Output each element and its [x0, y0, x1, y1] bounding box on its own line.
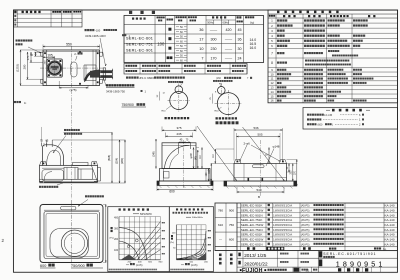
- top view screws: [44, 52, 46, 54]
- svg-text:KA-140: KA-140: [384, 213, 394, 217]
- title block mid cells: [276, 251, 278, 268]
- packing note: [126, 76, 128, 78]
- title block: [225, 251, 227, 273]
- svg-text:(1253): (1253): [16, 64, 20, 72]
- rear view dim 540: [236, 187, 238, 193]
- svg-text:36: 36: [199, 28, 203, 32]
- svg-text:375: 375: [176, 126, 181, 130]
- keyhole detail 2: [217, 93, 239, 115]
- svg-text:16.0: 16.0: [250, 46, 257, 50]
- svg-text:(kg): (kg): [250, 22, 254, 25]
- svg-text:8: 8: [271, 61, 273, 65]
- rear view top brackets: [234, 160, 241, 164]
- svg-text:――: ――: [225, 57, 233, 61]
- svg-text:(600: (600: [318, 123, 323, 126]
- svg-text:750/900: 750/900: [122, 103, 134, 107]
- svg-text:505: 505: [257, 132, 262, 136]
- title block FUJIOH logo: [240, 269, 242, 271]
- svg-text:1890955DA: 1890955DA: [273, 228, 293, 232]
- side view duct label: [64, 129, 66, 131]
- rear view dim 75: [268, 148, 270, 164]
- svg-text:(A5-P5): (A5-P5): [301, 243, 310, 246]
- svg-text:170: 170: [211, 57, 217, 61]
- graph 2 x axis title: [181, 264, 184, 266]
- svg-text:24: 24: [238, 57, 242, 61]
- svg-text:SERL-EC-901N: SERL-EC-901N: [241, 213, 263, 217]
- svg-text:1890959DA: 1890959DA: [273, 237, 293, 241]
- rear view bottom slab: [224, 181, 297, 186]
- svg-text:――: ――: [225, 47, 233, 51]
- rear view body: [234, 164, 287, 182]
- svg-text:(40): (40): [196, 156, 198, 160]
- hatch ticks under rear slab: [226, 186, 229, 189]
- svg-text:60Hz: 60Hz: [223, 21, 230, 25]
- svg-text:(A5-P5): (A5-P5): [301, 234, 310, 237]
- top view fan box: [47, 59, 62, 77]
- svg-text:1890958DA: 1890958DA: [273, 242, 293, 246]
- accessories box: [303, 108, 398, 130]
- side view inner boxes: [42, 170, 64, 181]
- graph 2 note: [170, 269, 172, 271]
- front view dim 600: [156, 186, 158, 191]
- dim (175): [59, 87, 88, 89]
- svg-text:7: 7: [201, 57, 203, 61]
- svg-text:750: 750: [229, 223, 234, 227]
- rear view inner details: [234, 177, 287, 179]
- bottom view top slot: [60, 206, 76, 210]
- svg-text:SERL-EC-901: SERL-EC-901: [126, 48, 153, 52]
- rear view centerline: [259, 140, 261, 196]
- svg-text:1890956DA: 1890956DA: [273, 223, 293, 227]
- bottom view inner panel: [44, 211, 100, 258]
- parts list table: [268, 10, 398, 103]
- svg-text:36: 36: [238, 38, 242, 42]
- keyhole detail 2 caption above: [213, 80, 215, 82]
- svg-text:30: 30: [238, 47, 242, 51]
- svg-text:KA-140: KA-140: [384, 204, 394, 208]
- svg-text:-100: -100: [95, 28, 101, 32]
- svg-text:170: 170: [26, 55, 30, 60]
- models table: [215, 203, 398, 251]
- svg-text:600: 600: [40, 264, 46, 268]
- graph 2 curves: [176, 231, 206, 259]
- svg-text:(A5-P5): (A5-P5): [301, 205, 310, 208]
- side view fan scroll: [42, 145, 63, 166]
- svg-text:550: 550: [66, 43, 72, 47]
- graph 2 dark wedge: [197, 253, 206, 260]
- svg-text:17: 17: [199, 38, 203, 42]
- svg-text:(m³/h): (m³/h): [191, 264, 198, 267]
- bottom view centerline: [70, 200, 72, 266]
- svg-text:(175): (175): [70, 88, 77, 92]
- dim 165: [43, 56, 55, 58]
- side view rear panel: [97, 166, 100, 168]
- svg-text:50Hz/60Hz: 50Hz/60Hz: [140, 213, 153, 216]
- svg-text:SERL-EC-901K: SERL-EC-901K: [241, 204, 264, 208]
- svg-text:SERL-EC-601K: SERL-EC-601K: [241, 233, 264, 237]
- svg-text:KA-140: KA-140: [384, 238, 394, 242]
- graph 2 curve end labels: [208, 230, 209, 231]
- label suction duct top-right: [85, 29, 87, 31]
- rear view handle hump: [252, 165, 264, 168]
- front view right dims: [196, 146, 199, 148]
- side view body: [39, 165, 97, 182]
- svg-text:SERL-EC-751W: SERL-EC-751W: [241, 223, 264, 227]
- graph 2 box: [169, 207, 213, 272]
- svg-text:600: 600: [169, 190, 175, 194]
- bottom view fan circles: [61, 230, 87, 256]
- svg-text:SERL-EC-601: SERL-EC-601: [126, 36, 153, 40]
- side view right vertical dims: [111, 132, 113, 183]
- top view duct stub right: [100, 70, 113, 77]
- power data strip: [124, 63, 247, 74]
- svg-text:2020/01/22: 2020/01/22: [244, 261, 268, 266]
- rear view dim 536: [233, 128, 235, 161]
- side view projection line: [40, 127, 42, 146]
- svg-text:SERL-EC-601W: SERL-EC-601W: [241, 237, 264, 241]
- svg-text:(280): (280): [120, 158, 124, 164]
- label hood mounting frame: [16, 39, 18, 41]
- svg-text:3439-1905-100V: 3439-1905-100V: [85, 34, 106, 38]
- svg-text:(m³/h): (m³/h): [136, 264, 143, 267]
- revision table: [14, 10, 83, 27]
- svg-text:(160: (160: [216, 77, 221, 80]
- svg-text:1890953DA: 1890953DA: [273, 208, 293, 212]
- leader diagonal D2: [242, 127, 284, 181]
- keyhole detail 2 caption: [216, 117, 218, 119]
- graph 1 title: [118, 208, 120, 210]
- svg-text:1890954DA: 1890954DA: [273, 218, 293, 222]
- svg-text:(Pa): (Pa): [170, 242, 174, 244]
- svg-text:300: 300: [211, 38, 217, 42]
- svg-text:KA-140: KA-140: [384, 208, 394, 212]
- svg-text:(A5-P5): (A5-P5): [301, 219, 310, 222]
- svg-text:SERL-EC-751N: SERL-EC-751N: [241, 228, 263, 232]
- svg-text:――: ――: [210, 28, 218, 32]
- svg-text:(A5-P5): (A5-P5): [301, 209, 310, 212]
- top view left tabs: [41, 52, 43, 56]
- svg-text:KA-140: KA-140: [384, 233, 394, 237]
- svg-text:3439-1905-750: 3439-1905-750: [106, 90, 125, 94]
- front view bottom slab: [157, 181, 213, 186]
- front view duct arc: [164, 145, 189, 168]
- svg-text:JIS C 9603: JIS C 9603: [139, 76, 154, 80]
- filter panel label: [39, 186, 41, 188]
- top view right bracket: [100, 52, 103, 56]
- svg-text:50Hz: 50Hz: [207, 21, 214, 25]
- graph 1 x axis title: [126, 264, 129, 266]
- side view rear diagonal: [91, 165, 97, 182]
- top view damper assembly: [84, 65, 96, 81]
- svg-text:12: 12: [270, 81, 274, 85]
- svg-text:SERL-EC-601N: SERL-EC-601N: [241, 242, 263, 246]
- svg-text:B: B: [258, 195, 260, 199]
- svg-text:(A5-P5): (A5-P5): [301, 214, 310, 217]
- svg-text:45: 45: [238, 28, 242, 32]
- front view cabinet small box: [163, 171, 169, 178]
- svg-text:KA-140: KA-140: [384, 228, 394, 232]
- graph 1 system lines: [131, 221, 161, 259]
- svg-text:SERL-EC-751K: SERL-EC-751K: [241, 218, 264, 222]
- title block stamp cells: [343, 267, 345, 272]
- svg-text:2013/ 1/25: 2013/ 1/25: [244, 253, 267, 258]
- svg-text:165: 165: [47, 53, 53, 57]
- keyhole detail 1: [170, 91, 188, 109]
- graph 2 title: [176, 208, 178, 210]
- top view fan circles: [47, 61, 62, 76]
- svg-text:600: 600: [229, 238, 234, 242]
- svg-text:280: 280: [23, 64, 27, 69]
- spec table: [124, 15, 264, 62]
- svg-text:No.: No.: [383, 248, 387, 251]
- hatch ticks under front slab: [159, 185, 162, 188]
- svg-text:KA-140: KA-140: [384, 242, 394, 246]
- svg-text:100: 100: [157, 41, 165, 46]
- leader diagonal D1: [197, 126, 237, 181]
- svg-text:1890957DA: 1890957DA: [273, 233, 293, 237]
- rear view left dims: [214, 149, 216, 164]
- svg-text:SERL-EC-601/751/901: SERL-EC-601/751/901: [323, 252, 376, 256]
- spec table title: [129, 11, 132, 14]
- top view centerlines: [40, 67, 104, 69]
- front view left packing dim: [155, 139, 157, 169]
- svg-text:φ148: φ148: [272, 145, 279, 149]
- svg-text:50Hz/60Hz: 50Hz/60Hz: [192, 217, 203, 219]
- svg-text:2-φ6: 2-φ6: [243, 141, 250, 145]
- svg-text:536: 536: [253, 126, 258, 130]
- models table footer header: [215, 246, 397, 248]
- title block label col: [317, 251, 319, 273]
- graph 1 dark wedge: [121, 255, 136, 260]
- bottom view leader: [78, 199, 88, 206]
- svg-text:(254): (254): [115, 158, 119, 164]
- svg-text:SERL-EC-751: SERL-EC-751: [126, 42, 153, 46]
- svg-text:(248): (248): [154, 151, 156, 157]
- front view cabinet interior: [162, 168, 164, 181]
- graph 1 curve end labels: [162, 222, 163, 223]
- svg-text:780: 780: [218, 209, 223, 213]
- keyhole detail 1 caption: [165, 117, 167, 119]
- svg-text:FUJIOH: FUJIOH: [242, 268, 263, 274]
- label side panel: [14, 101, 16, 103]
- rear view dim 505: [235, 133, 237, 160]
- side view duct stub: [46, 140, 48, 147]
- bottom view right dim: [105, 204, 107, 262]
- top view slot: [71, 62, 77, 77]
- left dims of top view: [34, 51, 43, 53]
- svg-text:610: 610: [218, 223, 223, 227]
- front view top dims: [161, 126, 163, 131]
- svg-text:4.1×45: 4.1×45: [324, 113, 333, 117]
- svg-text:1/2: 1/2: [305, 269, 309, 273]
- svg-text:(A5-P5): (A5-P5): [301, 229, 310, 232]
- svg-text:KA-140: KA-140: [384, 223, 394, 227]
- parts table title: [277, 11, 279, 13]
- graph 1 box: [108, 207, 170, 272]
- svg-text:10: 10: [199, 47, 203, 51]
- svg-text:(A5-P5): (A5-P5): [301, 239, 310, 242]
- front view right side dims: [207, 169, 209, 182]
- svg-text:SERL-EC-901W: SERL-EC-901W: [241, 208, 264, 212]
- svg-text:900: 900: [229, 209, 234, 213]
- svg-text:(Pa): (Pa): [110, 238, 114, 240]
- bottom view outer panel: [40, 204, 103, 262]
- svg-text:φ148: φ148: [191, 153, 193, 159]
- svg-text:7: 7: [271, 52, 273, 56]
- front view chimney: [162, 143, 196, 169]
- svg-text:1890951DA: 1890951DA: [273, 204, 293, 208]
- svg-text:235: 235: [176, 132, 181, 136]
- svg-text:(608): (608): [107, 155, 111, 161]
- graph 1 note: [109, 269, 111, 271]
- svg-text:1t: 1t: [24, 101, 26, 105]
- front view centerline: [182, 140, 184, 188]
- svg-text:――: ――: [225, 38, 233, 42]
- front view lower cabinet: [159, 168, 210, 181]
- svg-text:KA-140: KA-140: [384, 218, 394, 222]
- svg-text:1890952DA: 1890952DA: [273, 213, 293, 217]
- svg-text:2-: 2-: [74, 52, 77, 56]
- top view outline: [43, 50, 100, 86]
- title block B-spec A-spec: [219, 254, 222, 257]
- keyhole detail 1 caption above: [168, 81, 170, 83]
- graph 1 fan curves: [119, 227, 147, 259]
- svg-text:16: 16: [270, 99, 274, 103]
- svg-text:420: 420: [226, 28, 232, 32]
- graph 1 grid: [118, 217, 120, 260]
- svg-text:540: 540: [256, 188, 261, 192]
- bottom view intake housing: [50, 228, 89, 258]
- front view duct lines: [177, 143, 179, 154]
- svg-text:230: 230: [211, 47, 217, 51]
- rear view right dims: [288, 164, 290, 173]
- svg-text:1890951: 1890951: [336, 259, 386, 268]
- svg-text:750/900: 750/900: [71, 264, 85, 268]
- svg-text:―: ―: [219, 238, 222, 242]
- side view bottom feet: [39, 181, 43, 183]
- dim 550: [42, 44, 44, 49]
- graph 2 grid: [175, 225, 177, 260]
- side view top brackets: [39, 161, 46, 165]
- bottom view top band: [44, 209, 99, 211]
- label motor damper shutter: [106, 84, 108, 86]
- svg-text:(A5-P5): (A5-P5): [301, 224, 310, 227]
